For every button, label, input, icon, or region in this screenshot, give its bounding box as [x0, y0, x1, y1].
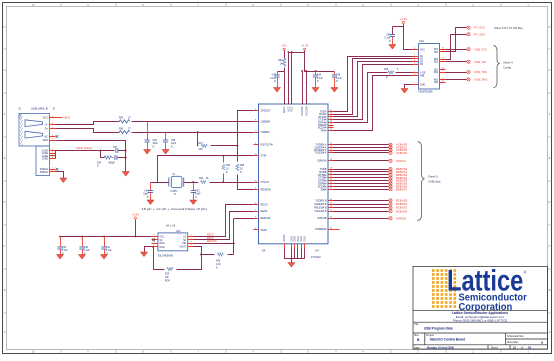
- wire SI/WUA net: [334, 160, 389, 162]
- resistor R42 27 on USBDM: [119, 117, 131, 123]
- svg-text:Config: Config: [503, 66, 512, 70]
- svg-text:Project: Project: [426, 334, 434, 337]
- wire ACBUS1 net: [334, 147, 389, 149]
- port BDBUS0: [389, 167, 408, 171]
- wire TXDA to U10 D1: [334, 57, 413, 112]
- svg-text:6: 6: [154, 242, 155, 244]
- svg-text:2: 2: [52, 127, 53, 129]
- svg-text:R14: R14: [97, 162, 102, 164]
- svg-text:C48: C48: [144, 190, 149, 192]
- brace sheet5 usb data: [418, 142, 425, 221]
- U4 right pin stubs: [329, 112, 334, 230]
- svg-text:R28: R28: [240, 165, 245, 167]
- svg-text:AGND: AGND: [283, 234, 286, 241]
- svg-text:6: 6: [443, 78, 444, 80]
- wire BDBUS3 net: [334, 177, 389, 179]
- wire EESK net: [194, 212, 254, 240]
- resistor R28 series on reset line: [236, 164, 245, 174]
- title block date row: [414, 345, 532, 349]
- svg-text:BDBUS7: BDBUS7: [396, 187, 408, 191]
- svg-text:24: 24: [330, 110, 332, 112]
- port PT_SCK: [467, 26, 485, 30]
- svg-text:R27: R27: [199, 143, 204, 145]
- svg-text:22: 22: [330, 115, 332, 117]
- svg-text:FT2232: FT2232: [311, 255, 321, 259]
- svg-text:+3.3V: +3.3V: [301, 44, 309, 48]
- svg-text:Schematic Rev: Schematic Rev: [507, 335, 525, 338]
- svg-text:6: 6: [52, 157, 53, 159]
- power +3.3V symbol: [301, 44, 309, 51]
- J2 pin stubs: [50, 118, 56, 172]
- svg-text:PT_SCK: PT_SCK: [474, 26, 485, 30]
- svg-text:C57: C57: [113, 147, 118, 149]
- capacitor C56 decoupling: [57, 237, 68, 256]
- svg-text:10: 10: [513, 345, 517, 349]
- wire AVCC net: [278, 51, 285, 105]
- svg-text:RIA#: RIA#: [321, 128, 327, 132]
- svg-text:1: 1: [191, 235, 192, 237]
- svg-text:DIN: DIN: [182, 243, 186, 245]
- svg-text:Sheet 4: Sheet 4: [503, 61, 513, 65]
- wire SI/WUB net: [334, 218, 389, 220]
- svg-text:0.1uF: 0.1uF: [317, 78, 323, 80]
- ground under U4: [288, 263, 295, 268]
- svg-text:8: 8: [414, 63, 415, 65]
- U10 right pin names: [434, 49, 439, 84]
- svg-text:26: 26: [330, 217, 332, 219]
- port ACBUS2: [389, 148, 408, 152]
- svg-text:35: 35: [330, 182, 332, 184]
- ground under C48: [147, 200, 154, 205]
- svg-text:680pF: 680pF: [109, 162, 116, 164]
- svg-text:SI/WUB: SI/WUB: [396, 216, 406, 220]
- port BDBUS5: [389, 182, 408, 186]
- capacitor C40 decoupling: [79, 237, 90, 256]
- capacitor C52 on XTOUT: [191, 183, 201, 201]
- svg-text:USB_TMS: USB_TMS: [474, 78, 487, 82]
- svg-text:+3.3V: +3.3V: [400, 17, 408, 21]
- junction dots 3V3OUT: [197, 131, 238, 146]
- svg-text:44: 44: [254, 181, 256, 183]
- capacitor C58 on USBDP: [163, 133, 177, 150]
- svg-text:30: 30: [330, 199, 332, 201]
- svg-text:SHIELD: SHIELD: [40, 172, 49, 174]
- svg-text:5: 5: [52, 138, 53, 140]
- svg-text:SHLD_Debug: SHLD_Debug: [76, 146, 93, 150]
- svg-text:CS: CS: [183, 237, 187, 239]
- wire EECS net: [194, 205, 254, 237]
- svg-text:11: 11: [330, 151, 332, 153]
- svg-text:5: 5: [255, 143, 256, 145]
- svg-text:S4B: S4B: [420, 76, 425, 78]
- capacitor C59 on USBDM: [145, 122, 159, 150]
- svg-text:EECS: EECS: [261, 203, 268, 207]
- svg-text:RSTOUT#: RSTOUT#: [261, 143, 274, 147]
- svg-text:BCBUS3: BCBUS3: [396, 209, 408, 213]
- svg-text:4B1: 4B1: [434, 79, 439, 81]
- svg-text:H: H: [4, 26, 6, 29]
- power +5V symbol: [282, 44, 287, 51]
- ground under C58: [162, 150, 169, 155]
- svg-text:NC: NC: [159, 240, 163, 242]
- port ACBUS3: [389, 151, 408, 155]
- svg-text:93LC46/56/66: 93LC46/56/66: [158, 254, 174, 257]
- op IC U4 FT2232 body: [259, 104, 329, 244]
- svg-text:3: 3: [191, 242, 192, 244]
- power +3.3V at U21: [132, 212, 140, 219]
- svg-text:27: 27: [330, 210, 332, 212]
- wire USBDP net (J2 D+ to U4 USBDP): [56, 129, 254, 133]
- svg-text:33: 33: [330, 185, 332, 187]
- svg-text:38: 38: [330, 173, 332, 175]
- svg-text:32: 32: [254, 203, 256, 205]
- svg-text:C46: C46: [386, 34, 391, 36]
- svg-text:1: 1: [255, 210, 256, 212]
- port BDBUS3: [389, 176, 408, 180]
- svg-text:23: 23: [330, 113, 332, 115]
- svg-text:9: 9: [443, 70, 444, 72]
- wire USBDM net (J2 D- to U4 USBDM): [56, 122, 254, 125]
- ground under C40: [78, 255, 85, 260]
- svg-text:C56: C56: [62, 247, 67, 249]
- svg-text:Sheet: Sheet: [491, 346, 498, 349]
- port BCBUS2: [389, 206, 408, 210]
- Lattice logo dot grid: [432, 269, 456, 308]
- ground under C56: [56, 255, 63, 260]
- svg-text:2B1: 2B1: [434, 59, 439, 61]
- svg-text:MachXO Control Board: MachXO Control Board: [430, 338, 465, 342]
- no-connect X on J2 NC pin: [56, 135, 59, 138]
- wire RXDA to U10 D2: [334, 59, 413, 115]
- svg-text:15: 15: [330, 143, 332, 145]
- wire BCBUS3 net: [334, 211, 389, 213]
- svg-text:USB Program Data: USB Program Data: [424, 327, 453, 331]
- svg-text:2: 2: [255, 217, 256, 219]
- svg-text:3: 3: [52, 123, 53, 125]
- U4 right pin numbers: [330, 110, 332, 230]
- svg-text:12: 12: [442, 81, 444, 83]
- svg-text:12: 12: [330, 148, 332, 150]
- svg-text:2: 2: [414, 54, 415, 56]
- ground under C44: [312, 88, 319, 93]
- wire 3V3OUT net: [198, 111, 254, 190]
- junction dot EEDATA: [233, 242, 235, 244]
- wire CTSA# to U10 D4: [334, 65, 413, 120]
- junction dot DOUT branch: [200, 254, 202, 256]
- svg-text:3B1: 3B1: [434, 69, 439, 71]
- svg-text:®: ®: [524, 270, 527, 275]
- svg-text:16: 16: [442, 48, 444, 50]
- wire BDBUS2 net: [334, 174, 389, 176]
- svg-text:VCC: VCC: [420, 50, 425, 52]
- svg-text:SI/WUA: SI/WUA: [317, 159, 326, 163]
- svg-text:39: 39: [330, 170, 332, 172]
- U4 top pin names: [283, 106, 308, 116]
- U4 bottom pin stubs: [285, 244, 305, 249]
- svg-text:1-OE: 1-OE: [420, 72, 426, 74]
- ground under C59: [144, 150, 151, 155]
- svg-text:0.1uF: 0.1uF: [385, 38, 391, 40]
- resistor R40: [384, 69, 399, 79]
- wire DOUT to R26: [194, 247, 234, 255]
- svg-text:4: 4: [443, 60, 444, 62]
- port ACBUS0: [389, 143, 408, 147]
- svg-text:USBDM: USBDM: [261, 119, 270, 123]
- ground under C52: [190, 200, 197, 205]
- wire SHLD_Debug net from CASE pins: [56, 151, 126, 159]
- wire PT_SCK net: [446, 28, 467, 52]
- wire VCC +3.3V net: [289, 51, 335, 105]
- resistor R23 across crystal: [222, 156, 231, 183]
- svg-text:1: 1: [52, 116, 53, 118]
- wire DIN pulldown loop: [154, 248, 202, 270]
- svg-text:ORG: ORG: [159, 243, 164, 245]
- wire J2 GND net: [56, 141, 126, 172]
- wire XTOUT net: [184, 182, 254, 184]
- text sheet5 usb data: [428, 175, 441, 184]
- svg-text:1K: 1K: [226, 168, 229, 170]
- svg-text:R25: R25: [165, 274, 170, 276]
- svg-text:Title:: Title:: [414, 323, 420, 326]
- resistor R25 10k: [165, 267, 173, 282]
- U4 right pin names: [314, 110, 327, 232]
- svg-text:TXLED# B: TXLED# B: [314, 209, 327, 213]
- svg-text:8: 8: [255, 120, 256, 122]
- wire ACBUS0 net: [334, 144, 389, 146]
- svg-text:H: H: [549, 26, 551, 29]
- svg-text:VCC: VCC: [291, 106, 294, 111]
- svg-text:43: 43: [254, 154, 256, 156]
- svg-text:C58: C58: [171, 140, 176, 142]
- svg-text:Sheet Rev: Sheet Rev: [507, 341, 519, 344]
- svg-text:15: 15: [414, 74, 416, 76]
- svg-text:SLEEP# B: SLEEP# B: [314, 202, 327, 206]
- svg-text:19: 19: [330, 123, 332, 125]
- wire BDBUS4 net: [334, 180, 389, 182]
- IC U10 bus switch body: [418, 39, 440, 94]
- U10 left pin numbers: [414, 48, 416, 85]
- U21 pin stubs: [152, 237, 194, 247]
- title block frame: [413, 267, 548, 350]
- svg-text:Date:: Date:: [414, 346, 420, 349]
- brace sheet4 config: [494, 46, 500, 88]
- svg-text:TXLED# A: TXLED# A: [314, 151, 326, 155]
- svg-text:64 x 16: 64 x 16: [166, 224, 176, 228]
- svg-text:Phone (503) 268-8001 or (800: Phone (503) 268-8001 or (800) LATTICE: [453, 318, 507, 322]
- svg-text:0.1uF: 0.1uF: [62, 250, 68, 252]
- svg-text:RXLED# B: RXLED# B: [314, 206, 327, 210]
- svg-text:CASE: CASE: [42, 150, 49, 153]
- resistor R26 2.2K: [216, 253, 223, 269]
- wire USB_TMS net: [446, 79, 467, 81]
- no-connect X on U21 NC: [152, 239, 155, 242]
- text sheet4 config: [503, 61, 513, 70]
- svg-text:31: 31: [330, 188, 332, 190]
- svg-text:D+: D+: [45, 128, 49, 131]
- svg-text:28: 28: [330, 206, 332, 208]
- wire PWREN# stub: [334, 229, 340, 231]
- svg-text:20: 20: [330, 121, 332, 123]
- resistor R27 1K5 pullup USBDP to 3V3OUT: [199, 143, 208, 151]
- svg-text:VCC: VCC: [43, 117, 48, 120]
- wire XTIN net: [151, 156, 254, 183]
- port USB_TDI: [467, 60, 486, 64]
- connector J2 USB_MINI_B: [18, 107, 55, 176]
- wire BCBUS2 net: [334, 207, 389, 209]
- svg-text:41: 41: [330, 228, 332, 230]
- svg-text:USB_MINI_B: USB_MINI_B: [31, 107, 48, 111]
- svg-text:10: 10: [442, 68, 444, 70]
- svg-text:C: C: [549, 245, 551, 248]
- svg-text:0.1uF: 0.1uF: [336, 78, 342, 80]
- J2 pin numbers: [52, 116, 53, 172]
- svg-text:0.1uF: 0.1uF: [270, 78, 276, 80]
- IC U21 EEPROM 93LC46 body: [158, 230, 188, 257]
- svg-text:36: 36: [330, 179, 332, 181]
- U4 left pin stubs: [254, 111, 259, 230]
- port USB_TCK: [467, 47, 487, 51]
- svg-text:ACBUS3: ACBUS3: [396, 151, 408, 155]
- svg-text:CASE: CASE: [42, 155, 49, 158]
- port BDBUS7: [389, 187, 408, 191]
- svg-text:G: G: [549, 69, 551, 72]
- junction dots on 3.3V rail: [288, 51, 317, 71]
- svg-text:R24: R24: [199, 178, 204, 180]
- svg-text:C: C: [4, 245, 6, 248]
- port BCBUS1: [389, 202, 408, 206]
- svg-text:D: D: [4, 201, 6, 204]
- wire RC branch of shield filter: [101, 151, 126, 158]
- wire BCBUS0 net: [334, 200, 389, 202]
- svg-text:U10: U10: [419, 39, 424, 43]
- svg-text:0.1uF: 0.1uF: [84, 250, 90, 252]
- svg-text:C41: C41: [106, 247, 111, 249]
- svg-text:74CBTD3384: 74CBTD3384: [418, 91, 433, 94]
- svg-text:13: 13: [330, 146, 332, 148]
- svg-text:10pF: 10pF: [153, 143, 159, 145]
- svg-text:C43: C43: [272, 74, 277, 76]
- wire USB_TCK net: [446, 49, 467, 51]
- svg-text:3: 3: [443, 57, 444, 59]
- port ACBUS1: [389, 145, 408, 149]
- svg-text:5: 5: [414, 57, 415, 59]
- junction dots shield net: [100, 150, 127, 159]
- svg-text:Sheet 5 PC FT-XD Bus: Sheet 5 PC FT-XD Bus: [494, 26, 523, 30]
- svg-text:14: 14: [414, 48, 416, 50]
- svg-text:CASE: CASE: [42, 152, 49, 155]
- U21 pin numbers: [154, 235, 192, 247]
- svg-text:J2: J2: [18, 107, 21, 111]
- capacitor C60 series in shield filter: [115, 155, 117, 160]
- svg-text:EEDATA: EEDATA: [261, 216, 271, 220]
- svg-text:16: 16: [330, 129, 332, 131]
- svg-text:4: 4: [191, 245, 192, 247]
- svg-text:D: D: [549, 201, 551, 204]
- svg-text:D4: D4: [262, 249, 266, 253]
- port USB_TMS: [467, 78, 487, 82]
- svg-text:2.2K: 2.2K: [216, 264, 221, 266]
- svg-text:DOUT: DOUT: [180, 246, 187, 248]
- junction dots crystal: [193, 155, 225, 183]
- svg-text:3: 3: [255, 228, 256, 230]
- wire BDBUS5 net: [334, 183, 389, 185]
- wire ACBUS3 net: [334, 152, 389, 154]
- wire U21 GND net: [145, 247, 152, 253]
- svg-text:4B2: 4B2: [434, 82, 439, 84]
- svg-text:USB_TDO: USB_TDO: [474, 70, 488, 74]
- svg-text:+5V: +5V: [282, 44, 287, 48]
- svg-text:TEST: TEST: [261, 228, 268, 232]
- wire XTOUT continuation under R23: [198, 182, 210, 184]
- wire RTSA# to U10 D3: [334, 62, 413, 117]
- wire RIA# to U10 S: [334, 76, 413, 131]
- U10 left pin stubs: [413, 50, 419, 85]
- wire J2 SHIELD lower to ground: [56, 172, 64, 179]
- ground under J2 shield: [60, 178, 67, 183]
- port BCBUS0: [389, 199, 408, 203]
- svg-text:VBUS: VBUS: [63, 116, 70, 120]
- port BDBUS6: [389, 185, 408, 189]
- svg-text:18pF: 18pF: [195, 194, 201, 196]
- U4 left pin numbers: [254, 109, 256, 230]
- wire PT_SDA net: [446, 35, 467, 60]
- wire USB_TDO net: [446, 72, 467, 74]
- ground under C45: [331, 88, 338, 93]
- capacitor C48 on XTIN: [143, 183, 153, 201]
- capacitor C57 series on SHLD net: [113, 147, 118, 153]
- svg-text:SK: SK: [183, 240, 187, 242]
- junction dots VCC rail: [59, 236, 136, 238]
- title block title row: [414, 323, 453, 331]
- svg-text:AVCC: AVCC: [283, 106, 286, 113]
- wire U10 GND to ground: [405, 85, 413, 89]
- U10 right pin numbers: [442, 48, 444, 83]
- svg-text:FB2: FB2: [278, 60, 283, 62]
- svg-text:USB_TDI: USB_TDI: [474, 60, 486, 64]
- svg-text:7: 7: [52, 170, 53, 172]
- svg-text:18 pF + 12 pF + Ground Plane (: 18 pF + 12 pF + Ground Plane (6 pF): [142, 207, 208, 211]
- svg-text:Monday, 10 April 2006: Monday, 10 April 2006: [427, 345, 455, 349]
- svg-text:C59: C59: [153, 140, 158, 142]
- svg-text:TXDEN B: TXDEN B: [315, 198, 327, 202]
- svg-text:4: 4: [52, 135, 53, 137]
- svg-text:8: 8: [154, 235, 155, 237]
- svg-text:XTOUT: XTOUT: [261, 180, 270, 184]
- wire BDBUS1 net: [334, 171, 389, 173]
- ground under U21: [140, 252, 147, 257]
- svg-text:C44: C44: [317, 74, 322, 76]
- wire U4 ground bus: [285, 249, 305, 263]
- port BDBUS2: [389, 173, 408, 177]
- svg-text:USBDP: USBDP: [261, 130, 270, 134]
- svg-text:1K: 1K: [206, 178, 209, 180]
- svg-text:SI/WUA: SI/WUA: [396, 159, 406, 163]
- svg-text:2B2: 2B2: [434, 62, 439, 64]
- resistor R24 series XTOUT: [199, 178, 209, 183]
- svg-text:1K: 1K: [240, 168, 243, 170]
- svg-text:PT_SDA: PT_SDA: [474, 32, 485, 36]
- svg-text:R26: R26: [216, 261, 221, 263]
- U21 pin names: [159, 237, 186, 249]
- svg-text:EEDATA: EEDATA: [207, 240, 217, 243]
- U10 left pin names: [420, 50, 426, 87]
- port BDBUS1: [389, 170, 408, 174]
- svg-text:6: 6: [52, 149, 53, 151]
- wire USB_TDI net: [446, 61, 467, 63]
- svg-text:U21: U21: [176, 230, 181, 233]
- ground under C41: [100, 255, 107, 260]
- port SI/WUA: [389, 159, 406, 163]
